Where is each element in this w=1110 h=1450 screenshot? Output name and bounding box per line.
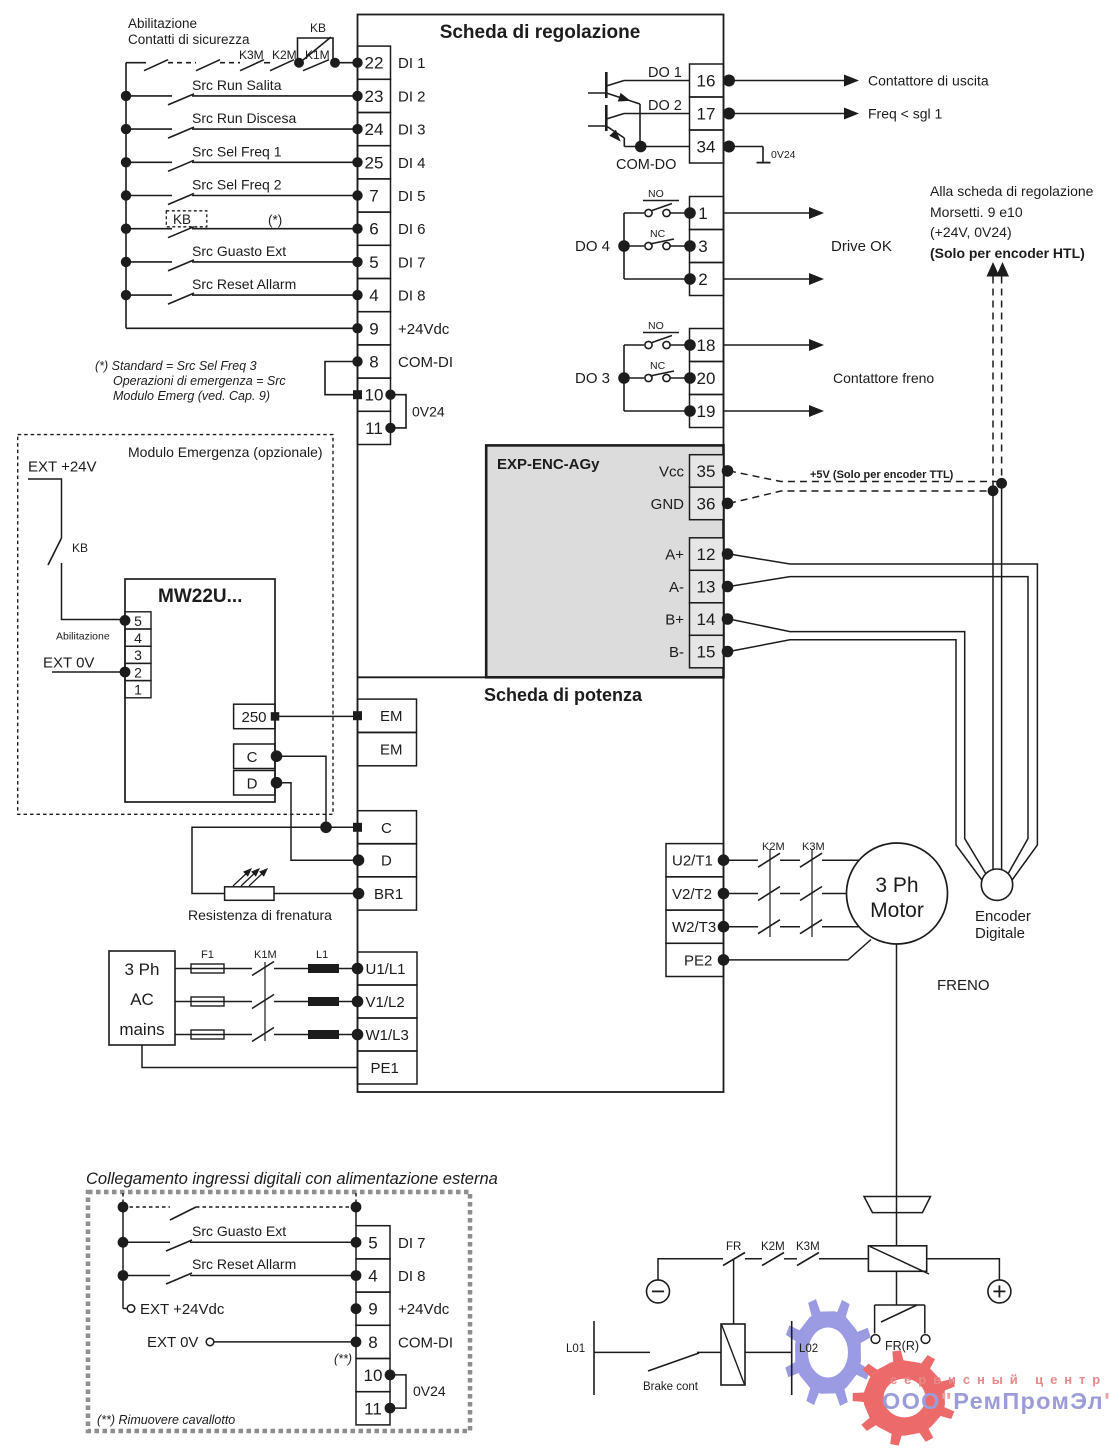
node GND [988, 485, 999, 496]
node terminal 17 [723, 108, 735, 120]
svg-text:3: 3 [698, 237, 707, 256]
contact NO DO 3 [624, 344, 644, 346]
node bus row 6 [121, 257, 131, 267]
node MW22U D [271, 777, 283, 789]
svg-text:Digitale: Digitale [975, 925, 1025, 942]
node ext terminal 10 [385, 1370, 396, 1381]
svg-text:(**): (**) [334, 1352, 352, 1366]
svg-text:K3M: K3M [239, 48, 264, 62]
node terminal 12 [722, 548, 734, 560]
contact bridge [170, 1207, 196, 1220]
svg-text:DI 7: DI 7 [398, 1235, 426, 1252]
svg-text:(**) Rimuovere cavallotto: (**) Rimuovere cavallotto [97, 1413, 235, 1427]
contact Src Guasto Ext ext [166, 1240, 192, 1251]
svg-text:Collegamento ingressi digitali: Collegamento ingressi digitali con alime… [86, 1170, 498, 1188]
terminal 5 box [358, 245, 391, 278]
svg-text:12: 12 [697, 545, 716, 564]
encoder circle [981, 869, 1012, 900]
contact K3M brake [797, 1253, 819, 1266]
node ext terminal 11 [385, 1403, 396, 1414]
svg-text:Vcc: Vcc [659, 463, 685, 480]
terminal 10 box [358, 378, 391, 411]
svg-text:Motor: Motor [870, 899, 924, 922]
svg-text:DI 6: DI 6 [398, 221, 426, 238]
terminal 6 box [358, 212, 391, 245]
svg-text:DI 3: DI 3 [398, 122, 426, 139]
node MW22U 250 [271, 712, 280, 721]
wire row 24 [126, 128, 172, 130]
svg-text:Scheda di potenza: Scheda di potenza [484, 685, 643, 705]
svg-text:25: 25 [365, 153, 384, 172]
terminal ext 11 box [356, 1392, 390, 1425]
terminal V2/T2 box [666, 877, 724, 910]
node terminal W1/L3 [352, 1029, 364, 1041]
contact K2M phase 3 [758, 920, 780, 934]
svg-text:(+24V, 0V24): (+24V, 0V24) [930, 224, 1012, 240]
wire PE2 to motor [724, 940, 872, 960]
contact K1M phase 3 [252, 1028, 274, 1042]
svg-text:Contattore di uscita: Contattore di uscita [868, 73, 989, 89]
wire row 25 [126, 161, 172, 163]
terminal 23 box [358, 79, 391, 112]
svg-text:(*) Standard = Src Sel Freq 3: (*) Standard = Src Sel Freq 3 [95, 359, 257, 373]
svg-text:EM: EM [380, 742, 403, 759]
relay DO 4 terminal boxes 1 3 2 [690, 197, 724, 230]
svg-text:11: 11 [365, 419, 383, 438]
svg-text:C: C [381, 820, 392, 837]
svg-text:0V24: 0V24 [771, 149, 796, 161]
wire A- terminal 13 to encoder [729, 577, 1028, 877]
node terminal 18 [684, 339, 696, 351]
svg-text:DI 4: DI 4 [398, 155, 426, 172]
node terminal W2/T3 [718, 921, 730, 933]
wire row 23 [126, 95, 172, 97]
svg-text:D: D [381, 853, 392, 870]
svg-text:5: 5 [134, 613, 142, 629]
svg-text:Alla scheda di regolazione: Alla scheda di regolazione [930, 183, 1094, 199]
jumper wire terminals 10-11 [391, 395, 407, 428]
terminal PE2 box [666, 943, 724, 976]
svg-text:EM: EM [380, 708, 403, 725]
terminal 14 box [690, 603, 724, 636]
svg-text:ООО"РемПромЭл": ООО"РемПромЭл" [882, 1388, 1110, 1414]
contact row 6 [168, 227, 194, 238]
node ext terminal 5 [351, 1237, 362, 1248]
svg-text:Drive OK: Drive OK [831, 238, 892, 255]
svg-text:K2M: K2M [762, 841, 785, 853]
terminal 24 box [358, 113, 391, 146]
terminal 7 box [358, 179, 391, 212]
svg-text:KB: KB [310, 21, 326, 35]
svg-text:250: 250 [241, 709, 266, 726]
wire dashed top right stub [355, 1193, 357, 1207]
terminal 13 box [690, 570, 724, 603]
svg-text:Scheda di regolazione: Scheda di regolazione [440, 22, 641, 43]
svg-text:AC: AC [130, 990, 154, 1009]
terminal D box [358, 844, 417, 877]
svg-text:15: 15 [697, 643, 716, 662]
terminal MW22U 3 box [125, 646, 151, 663]
wire mains phase 2 [175, 1001, 191, 1003]
svg-text:PE1: PE1 [371, 1060, 399, 1077]
svg-text:DO 3: DO 3 [575, 370, 610, 387]
logo gear red [853, 1350, 955, 1445]
svg-text:W1/L3: W1/L3 [366, 1027, 409, 1044]
node bus row 1 [121, 91, 131, 101]
node ext terminal 4 [351, 1270, 362, 1281]
svg-text:MW22U...: MW22U... [158, 586, 242, 607]
svg-text:U1/L1: U1/L1 [366, 961, 406, 978]
node ext terminal 9 [351, 1303, 362, 1314]
contact K2M [270, 60, 294, 71]
svg-text:NC: NC [650, 360, 666, 372]
svg-text:Src Run Salita: Src Run Salita [192, 77, 282, 93]
wire dashed bus bridge [123, 1206, 170, 1208]
contact Src Reset Allarm ext [166, 1273, 192, 1284]
wire B+ terminal 14 to encoder [729, 619, 988, 877]
expansion card EXP-ENC-AGy box [486, 445, 723, 677]
terminal MW22U 2 box [125, 663, 151, 680]
svg-text:8: 8 [368, 1333, 377, 1352]
svg-text:3 Ph: 3 Ph [125, 960, 160, 979]
wire DO1 emitter down [639, 104, 641, 147]
frame dotted external supply box [88, 1192, 470, 1431]
node junction C [320, 822, 332, 834]
wire arrow terminal 1 [724, 212, 811, 214]
node MW22U 5 [120, 615, 131, 626]
svg-text:K3M: K3M [802, 841, 825, 853]
svg-text:FRENO: FRENO [937, 977, 990, 994]
svg-text:NC: NC [650, 228, 666, 240]
jumper wire terminals 8-10 [325, 362, 358, 395]
wire terminal 5 row ext [118, 1237, 129, 1248]
svg-text:13: 13 [697, 578, 716, 597]
wire terminal 34 to 0V24 [729, 146, 763, 148]
svg-text:4: 4 [134, 630, 142, 646]
svg-text:Freq < sgl 1: Freq < sgl 1 [868, 106, 943, 122]
svg-text:mains: mains [119, 1020, 164, 1039]
svg-text:Src Reset Allarm: Src Reset Allarm [192, 276, 296, 292]
svg-text:V1/L2: V1/L2 [366, 994, 405, 1011]
svg-text:B-: B- [669, 644, 684, 661]
node bus row 5 [121, 224, 131, 234]
node bus top right [351, 1202, 362, 1213]
svg-text:+24Vdc: +24Vdc [398, 1301, 450, 1318]
fuse F1 phase 3 [191, 1030, 224, 1039]
contact FR(R) [875, 1304, 925, 1306]
svg-text:35: 35 [697, 462, 716, 481]
svg-text:DI 7: DI 7 [398, 254, 426, 271]
inductor L1 phase 1 [308, 964, 339, 973]
node DO 3 [618, 372, 630, 384]
node L01 bar [593, 1321, 595, 1395]
node terminal 36 [722, 498, 734, 510]
terminal MW22U 5 box [125, 612, 151, 629]
svg-text:KB: KB [72, 541, 88, 555]
node terminal 5 [352, 257, 362, 267]
node terminal 16 [723, 75, 735, 87]
svg-text:24: 24 [365, 120, 384, 139]
wire row 7 [126, 195, 172, 197]
wire row 5 [126, 261, 172, 263]
regulation board outline box Scheda di regolazione [358, 15, 724, 1093]
svg-text:17: 17 [697, 105, 716, 124]
terminal 4 box [358, 279, 391, 312]
wire mains phase 1 [175, 968, 191, 970]
terminal C box [358, 811, 417, 844]
svg-text:A-: A- [669, 579, 684, 596]
contactor K3M linkage [811, 849, 813, 937]
contact row 4 [168, 293, 194, 304]
wire through trapezoid [896, 1197, 898, 1214]
node terminal 9 [352, 323, 362, 333]
contact K1M [303, 60, 329, 71]
contact KB emergency [48, 538, 62, 565]
contact K2M brake [762, 1253, 784, 1266]
terminal U1/L1 box [358, 952, 418, 985]
node EXT 0V circle [206, 1338, 214, 1346]
svg-text:5: 5 [368, 1233, 377, 1252]
svg-text:36: 36 [697, 494, 716, 513]
svg-text:U2/T1: U2/T1 [672, 853, 713, 870]
wire C to braking resistor [192, 827, 326, 893]
relay DO 4 bus wire [623, 213, 625, 279]
wire dashed segment [220, 62, 240, 64]
terminal BR1 box [358, 877, 417, 910]
node terminal 3 [684, 240, 696, 252]
svg-text:Modulo Emerg (ved. Cap. 9): Modulo Emerg (ved. Cap. 9) [113, 389, 270, 403]
svg-text:COM-DI: COM-DI [398, 354, 453, 371]
wire L01 to Brake cont [594, 1351, 650, 1353]
svg-text:Abilitazione: Abilitazione [128, 16, 197, 31]
node bus row 4 [121, 190, 131, 200]
node KB junction left [294, 58, 304, 68]
svg-text:Morsetti. 9 e10: Morsetti. 9 e10 [930, 204, 1023, 220]
svg-text:DO 4: DO 4 [575, 238, 610, 255]
svg-text:DI 8: DI 8 [398, 1268, 426, 1285]
wire arrow Freq < sgl 1 [729, 113, 845, 115]
svg-text:PE2: PE2 [684, 952, 712, 969]
node terminal PE2 [718, 954, 730, 966]
wire row 9 to terminal [126, 327, 358, 329]
node terminal 1 [684, 207, 696, 219]
wire A+ terminal 12 to encoder [729, 554, 1037, 882]
contactor K1M linkage [264, 962, 266, 1041]
wire arrow terminal 18 [724, 344, 811, 346]
node terminal V2/T2 [718, 888, 730, 900]
svg-text:2: 2 [698, 270, 707, 289]
wire trapezoid to rectifier [896, 1213, 898, 1246]
wire arrow terminal 2 [724, 278, 811, 280]
wire DO 4 common [624, 278, 690, 280]
node terminal 11 right [385, 423, 395, 433]
svg-text:16: 16 [697, 72, 716, 91]
terminal 17 box [690, 97, 724, 130]
svg-text:DO 1: DO 1 [648, 65, 682, 81]
svg-text:2: 2 [134, 664, 142, 680]
node terminal U2/T1 [718, 854, 730, 866]
svg-text:GND: GND [651, 496, 685, 513]
svg-text:34: 34 [697, 138, 716, 157]
node bus row 7 [121, 290, 131, 300]
contact K3M phase 3 [800, 920, 822, 934]
terminal ext 9 box [356, 1292, 390, 1325]
svg-text:9: 9 [369, 319, 378, 338]
wire PE1 [142, 1045, 358, 1068]
rectifier box [868, 1246, 926, 1272]
svg-text:Encoder: Encoder [975, 908, 1031, 925]
svg-text:+24Vdc: +24Vdc [398, 321, 450, 338]
svg-text:8: 8 [369, 353, 378, 372]
inductor L1 phase 2 [308, 997, 339, 1006]
wire arrow terminal 19 [724, 410, 811, 412]
svg-text:4: 4 [368, 1267, 377, 1286]
svg-text:NO: NO [648, 320, 664, 332]
svg-text:Contattore freno: Contattore freno [833, 370, 934, 386]
svg-text:Operazioni di emergenza = Src: Operazioni di emergenza = Src [113, 374, 286, 388]
node +5V [996, 478, 1007, 489]
terminal W2/T3 box [666, 910, 724, 943]
contact row 25 [168, 160, 194, 171]
node bus top left [118, 1202, 129, 1213]
contact K3M [240, 60, 264, 71]
terminal U2/T1 box [666, 844, 724, 877]
module MW22U box [125, 579, 275, 802]
wire dashed segment [168, 62, 196, 64]
svg-text:FR(R): FR(R) [885, 1339, 919, 1353]
terminal 8 box [358, 345, 391, 378]
contact K1M phase 2 [252, 995, 274, 1009]
terminal ext 8 box [356, 1325, 390, 1358]
svg-text:+5V (Solo per encoder TTL): +5V (Solo per encoder TTL) [810, 469, 954, 481]
svg-text:Src Run Discesa: Src Run Discesa [192, 110, 296, 126]
node terminal 23 [352, 91, 362, 101]
terminal 25 box [358, 146, 391, 179]
terminal 11 box [358, 411, 391, 444]
wire EXT +24V [28, 479, 62, 538]
svg-text:Contatti di sicurezza: Contatti di sicurezza [128, 32, 250, 47]
node KB junction right [330, 58, 340, 68]
node terminal 19 [684, 405, 696, 417]
svg-text:L1: L1 [316, 949, 328, 961]
wire row 6 [126, 228, 172, 230]
svg-text:5: 5 [369, 253, 378, 272]
source 3 Ph AC mains box [109, 951, 175, 1045]
svg-text:0V24: 0V24 [412, 403, 445, 419]
node terminal 4 [352, 290, 362, 300]
svg-text:L02: L02 [799, 1343, 818, 1355]
contact K3M phase 1 [800, 853, 822, 867]
svg-text:20: 20 [697, 369, 716, 388]
wire dashed Vcc +5V [729, 471, 1002, 482]
svg-text:KB: KB [173, 212, 191, 227]
svg-text:6: 6 [369, 220, 378, 239]
logo gear blue [785, 1299, 870, 1406]
wire V2/T2 phase [724, 893, 759, 895]
contact FR [723, 1253, 745, 1266]
svg-text:0V24: 0V24 [413, 1383, 446, 1399]
wire MW22U D to terminal D [277, 783, 358, 861]
node terminal EM [353, 711, 362, 720]
wire rectifier to FR(R) [896, 1271, 898, 1305]
motor 3 Ph Motor [847, 843, 948, 944]
contact row 24 [168, 127, 194, 138]
svg-text:K3M: K3M [796, 1241, 820, 1253]
svg-text:EXT +24Vdc: EXT +24Vdc [140, 1301, 225, 1318]
svg-text:Src Reset Allarm: Src Reset Allarm [192, 1256, 296, 1272]
svg-text:10: 10 [365, 386, 384, 405]
svg-text:10: 10 [364, 1366, 383, 1385]
node terminal U1/L1 [352, 963, 364, 975]
resistor adjust arrows [233, 870, 250, 886]
contact safety 2 [196, 60, 220, 71]
relay DO 3 bus wire [623, 345, 625, 411]
svg-text:23: 23 [365, 87, 384, 106]
fuse F1 phase 2 [191, 997, 224, 1006]
wire minus to FR [658, 1259, 723, 1280]
wire row 4 [126, 294, 172, 296]
svg-text:3: 3 [134, 647, 142, 663]
wire EXT 0V [52, 671, 120, 673]
node terminal BR1 [353, 888, 365, 900]
wire arrow Contattore di uscita [729, 80, 845, 82]
wire COM-DO [624, 146, 689, 148]
node terminal 2 [684, 273, 696, 285]
source plus circle [988, 1280, 1011, 1303]
svg-text:Src Sel Freq 2: Src Sel Freq 2 [192, 177, 282, 193]
svg-text:9: 9 [368, 1300, 377, 1319]
wire dashed HTL right [1001, 277, 1003, 484]
node L02 bar [791, 1321, 793, 1395]
contact K2M phase 1 [758, 853, 780, 867]
node terminal 13 [722, 581, 734, 593]
svg-text:W2/T3: W2/T3 [672, 919, 716, 936]
wire resistor to BR1 [274, 893, 358, 895]
source minus circle [647, 1280, 670, 1303]
node ext terminal 8 [351, 1337, 362, 1348]
wire DI1 row segments [126, 62, 146, 64]
terminal ext 5 box [356, 1226, 390, 1259]
terminal ext 4 box [356, 1259, 390, 1292]
fuse F1 phase 1 [191, 964, 224, 973]
terminal EM box [358, 733, 417, 766]
svg-text:DI 8: DI 8 [398, 288, 426, 305]
node COM-DO junction [635, 141, 647, 153]
svg-text:Abilitazione: Abilitazione [56, 631, 110, 643]
transistor DO2 [605, 105, 608, 131]
svg-text:18: 18 [697, 336, 716, 355]
svg-text:COM-DI: COM-DI [398, 1334, 453, 1351]
separator wire between regulation and power board [358, 676, 487, 678]
wire terminal 4 row ext [118, 1270, 129, 1281]
svg-text:K1M: K1M [254, 949, 277, 961]
wire rectifier to plus [927, 1259, 1000, 1280]
svg-text:1: 1 [134, 682, 142, 698]
svg-text:BR1: BR1 [374, 886, 403, 903]
contact NO DO 4 [624, 212, 644, 214]
node terminal 14 [722, 613, 734, 625]
svg-text:DI 2: DI 2 [398, 88, 426, 105]
node terminal 25 [352, 157, 362, 167]
jumper ext 10-11 [390, 1375, 406, 1408]
wire dashed HTL left [992, 277, 994, 491]
node terminal 8 [352, 356, 362, 366]
svg-text:Resistenza di frenatura: Resistenza di frenatura [188, 907, 332, 923]
wire DO 3 common [624, 410, 690, 412]
svg-text:14: 14 [697, 610, 716, 629]
wire FR tap to brake coil [733, 1259, 735, 1324]
wire GND down to encoder [992, 491, 994, 871]
